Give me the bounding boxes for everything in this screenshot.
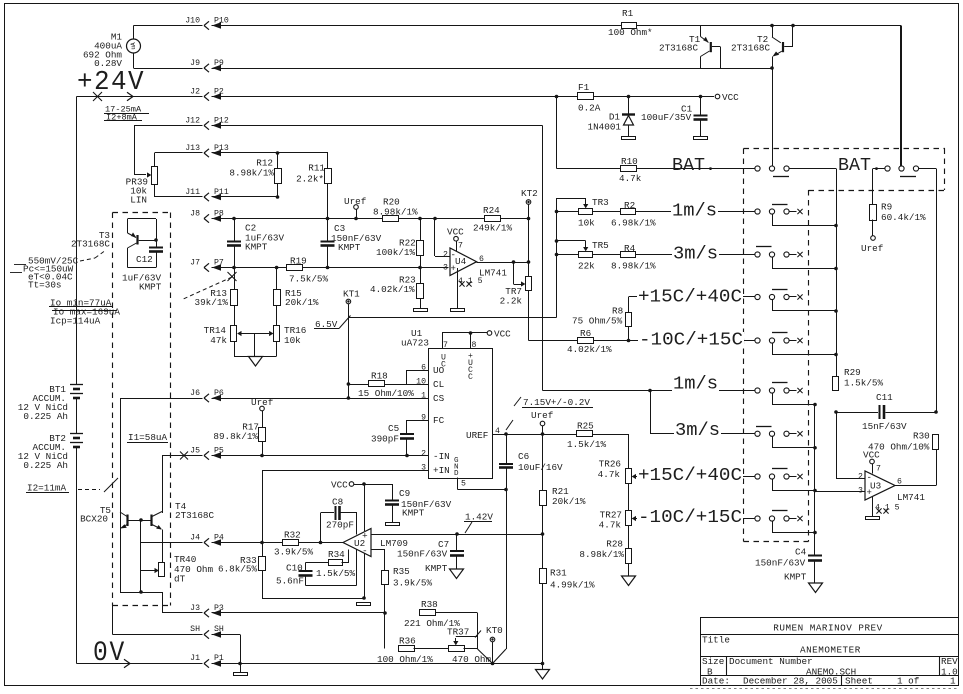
svg-text:J13: J13 (185, 144, 200, 153)
svg-text:UREF: UREF (466, 430, 488, 441)
svg-text:60.4k/1%: 60.4k/1% (881, 212, 926, 223)
svg-text:uA: uA (130, 42, 137, 50)
svg-text:J8: J8 (190, 209, 200, 218)
svg-text:P10: P10 (214, 16, 229, 25)
svg-text:75 Ohm/5%: 75 Ohm/5% (572, 316, 623, 327)
svg-text:89.8k/1%: 89.8k/1% (213, 431, 258, 442)
svg-text:270pF: 270pF (326, 520, 354, 531)
svg-text:-IN: -IN (433, 451, 450, 462)
svg-text:1m/s: 1m/s (673, 374, 718, 395)
svg-text:20k/1%: 20k/1% (285, 297, 319, 308)
svg-text:8.98k/1%: 8.98k/1% (579, 549, 624, 560)
svg-text:1: 1 (950, 676, 956, 687)
svg-text:December 28, 2005: December 28, 2005 (743, 676, 838, 687)
svg-text:CL: CL (433, 379, 444, 390)
svg-text:LM709: LM709 (380, 538, 408, 549)
svg-text:R30: R30 (913, 431, 930, 442)
svg-text:P13: P13 (214, 144, 229, 153)
svg-text:470 Ohm: 470 Ohm (452, 654, 491, 665)
svg-text:7.15V+/-0.2V: 7.15V+/-0.2V (523, 397, 590, 408)
svg-text:2T3168C: 2T3168C (71, 239, 110, 250)
svg-text:Title: Title (702, 635, 730, 646)
svg-text:J4: J4 (190, 533, 200, 542)
svg-text:3.9k/5%: 3.9k/5% (393, 578, 432, 589)
svg-text:KT1: KT1 (343, 289, 360, 300)
svg-text:3.9k/5%: 3.9k/5% (274, 547, 313, 558)
svg-text:Date:: Date: (702, 676, 730, 687)
svg-text:P11: P11 (214, 188, 229, 197)
svg-text:1.5k/5%: 1.5k/5% (316, 568, 355, 579)
svg-text:KMPT: KMPT (784, 572, 807, 583)
svg-text:D: D (454, 470, 459, 478)
svg-text:R34: R34 (328, 549, 345, 560)
svg-text:3: 3 (421, 464, 426, 473)
svg-text:U3: U3 (870, 481, 881, 492)
svg-text:100 Ohm*: 100 Ohm* (608, 27, 653, 38)
svg-text:C6: C6 (518, 451, 529, 462)
svg-text:0.2A: 0.2A (578, 103, 601, 114)
svg-text:TR3: TR3 (592, 197, 609, 208)
svg-text:4.02k/1%: 4.02k/1% (567, 344, 612, 355)
svg-text:22k: 22k (578, 261, 595, 272)
svg-text:R18: R18 (371, 371, 388, 382)
svg-text:CS: CS (433, 393, 445, 404)
svg-text:2.2k*: 2.2k* (296, 174, 324, 185)
svg-text:RUMEN MARINOV PREV: RUMEN MARINOV PREV (773, 623, 882, 634)
svg-text:-10C/+15C: -10C/+15C (639, 330, 743, 351)
svg-text:100 Ohm/1%: 100 Ohm/1% (377, 654, 433, 665)
svg-text:BAT.: BAT. (672, 155, 716, 176)
svg-text:1.5k/1%: 1.5k/1% (567, 439, 606, 450)
svg-text:Document Number: Document Number (729, 656, 813, 667)
svg-text:2T3168C: 2T3168C (659, 43, 698, 54)
svg-text:J2: J2 (190, 87, 200, 96)
svg-text:6: 6 (421, 364, 426, 373)
svg-text:KMPT: KMPT (425, 563, 448, 574)
svg-text:R35: R35 (393, 566, 410, 577)
svg-text:2: 2 (421, 450, 426, 459)
svg-text:+: + (362, 531, 368, 542)
svg-text:1: 1 (421, 392, 426, 401)
svg-text:2.2k: 2.2k (500, 296, 523, 307)
svg-text:R28: R28 (606, 539, 623, 550)
svg-text:VCC: VCC (331, 480, 348, 491)
svg-text:LM741: LM741 (479, 268, 507, 279)
svg-text:I2=11mA: I2=11mA (27, 483, 66, 494)
svg-text:15nF/63V: 15nF/63V (862, 421, 907, 432)
svg-text:R24: R24 (483, 205, 500, 216)
svg-text:Uref: Uref (861, 243, 883, 254)
svg-text:1.5k/5%: 1.5k/5% (844, 378, 883, 389)
svg-text:J11: J11 (185, 188, 200, 197)
svg-text:BCX20: BCX20 (80, 514, 108, 525)
svg-text:+24V: +24V (77, 68, 145, 98)
svg-text:10uF/16V: 10uF/16V (518, 462, 563, 473)
svg-text:C11: C11 (876, 392, 893, 403)
svg-text:VCC: VCC (494, 329, 511, 340)
svg-text:J10: J10 (185, 16, 200, 25)
svg-text:C5: C5 (388, 423, 399, 434)
svg-text:R1: R1 (622, 8, 634, 19)
svg-text:F1: F1 (578, 82, 590, 93)
svg-text:4.7k: 4.7k (598, 469, 621, 480)
svg-text:R6: R6 (580, 328, 591, 339)
svg-text:TR26: TR26 (599, 459, 621, 470)
svg-text:R36: R36 (399, 636, 416, 647)
svg-text:J1: J1 (190, 654, 200, 663)
svg-text:Sheet: Sheet (845, 676, 873, 687)
svg-text:6.8k/5%: 6.8k/5% (218, 564, 257, 575)
svg-text:J12: J12 (185, 116, 200, 125)
svg-text:J5: J5 (190, 446, 200, 455)
svg-text:C: C (468, 373, 473, 382)
svg-text:7: 7 (443, 341, 448, 350)
svg-text:Uref: Uref (531, 410, 553, 421)
svg-text:10k: 10k (284, 335, 301, 346)
svg-text:R10: R10 (621, 156, 638, 167)
svg-text:100uF/35V: 100uF/35V (641, 112, 692, 123)
svg-text:J9: J9 (190, 59, 200, 68)
svg-text:C10: C10 (286, 563, 303, 574)
svg-text:150nF/63V: 150nF/63V (755, 558, 806, 569)
svg-text:R11: R11 (308, 163, 325, 174)
svg-text:LM741: LM741 (897, 492, 925, 503)
svg-text:39k/1%: 39k/1% (195, 297, 229, 308)
svg-text:KT0: KT0 (486, 625, 503, 636)
svg-text:2T3168C: 2T3168C (731, 43, 770, 54)
svg-text:8.98k/1%: 8.98k/1% (611, 261, 656, 272)
svg-text:VCC: VCC (447, 227, 464, 238)
svg-text:C12: C12 (136, 254, 153, 265)
svg-text:150nF/63V: 150nF/63V (397, 549, 448, 560)
svg-text:P12: P12 (214, 116, 229, 125)
svg-text:8.98k/1%: 8.98k/1% (373, 207, 418, 218)
svg-text:15 Ohm/10%: 15 Ohm/10% (358, 388, 414, 399)
svg-text:FC: FC (433, 415, 445, 426)
svg-text:7: 7 (458, 242, 463, 251)
svg-text:R19: R19 (290, 256, 307, 267)
svg-text:3m/s: 3m/s (673, 244, 718, 265)
svg-text:KMPT: KMPT (139, 282, 162, 293)
svg-text:1 of: 1 of (897, 676, 919, 687)
svg-text:I2+8mA: I2+8mA (106, 113, 138, 123)
svg-text:R38: R38 (421, 599, 438, 610)
svg-text:47k: 47k (210, 335, 227, 346)
svg-text:2T3168C: 2T3168C (175, 510, 214, 521)
svg-text:R31: R31 (550, 568, 567, 579)
svg-text:10: 10 (416, 378, 426, 387)
svg-text:uA723: uA723 (401, 338, 429, 349)
svg-text:R4: R4 (624, 243, 636, 254)
svg-text:BAT.: BAT. (838, 155, 882, 176)
svg-text:4.02k/1%: 4.02k/1% (370, 284, 415, 295)
svg-text:Uref: Uref (344, 196, 366, 207)
svg-text:KMPT: KMPT (245, 242, 268, 253)
svg-text:I1=58uA: I1=58uA (128, 432, 167, 443)
svg-text:1.42V: 1.42V (465, 512, 493, 523)
svg-text:3: 3 (443, 264, 448, 273)
svg-text:+IN: +IN (433, 465, 450, 476)
svg-text:7: 7 (876, 465, 881, 474)
svg-text:LIN: LIN (130, 195, 147, 206)
svg-text:J3: J3 (190, 604, 200, 613)
svg-text:249k/1%: 249k/1% (473, 223, 512, 234)
svg-text:0.225 Ah: 0.225 Ah (23, 411, 68, 422)
svg-text:U4: U4 (455, 256, 467, 267)
svg-text:0V: 0V (93, 638, 126, 669)
svg-text:dT: dT (174, 574, 186, 585)
svg-text:5: 5 (461, 480, 466, 489)
svg-text:KT2: KT2 (521, 188, 538, 199)
svg-text:Size: Size (702, 656, 724, 667)
svg-text:4.7k: 4.7k (599, 520, 622, 531)
svg-text:1m/s: 1m/s (672, 201, 717, 222)
svg-text:UO: UO (433, 365, 445, 376)
svg-text:TR5: TR5 (592, 240, 609, 251)
svg-text:R2: R2 (624, 200, 635, 211)
svg-text:+15C/+40C: +15C/+40C (638, 465, 742, 486)
svg-text:C4: C4 (795, 547, 807, 558)
svg-text:J7: J7 (190, 258, 200, 267)
svg-text:KMPT: KMPT (338, 242, 361, 253)
svg-text:R29: R29 (844, 367, 861, 378)
svg-text:TR37: TR37 (447, 627, 469, 638)
svg-text:R25: R25 (577, 421, 594, 432)
svg-text:R32: R32 (284, 530, 301, 541)
svg-text:KMPT: KMPT (402, 508, 425, 519)
svg-text:4.7k: 4.7k (619, 173, 642, 184)
svg-text:1N4001: 1N4001 (588, 122, 622, 133)
svg-text:Tt=30s: Tt=30s (28, 280, 61, 291)
svg-text:Icp=114uA: Icp=114uA (50, 316, 101, 327)
svg-text:C8: C8 (332, 497, 343, 508)
svg-text:9: 9 (421, 414, 426, 423)
svg-text:-10C/+15C: -10C/+15C (638, 507, 742, 528)
svg-text:REV: REV (941, 656, 958, 667)
svg-text:7.5k/5%: 7.5k/5% (289, 274, 328, 285)
svg-text:C9: C9 (399, 488, 410, 499)
svg-text:2: 2 (858, 473, 863, 482)
svg-text:2: 2 (443, 251, 448, 260)
svg-text:SH: SH (190, 625, 200, 634)
svg-text:10k: 10k (578, 218, 595, 229)
svg-text:5.6nF: 5.6nF (276, 576, 304, 587)
svg-text:6.98k/1%: 6.98k/1% (611, 218, 656, 229)
svg-text:ANEMOMETER: ANEMOMETER (800, 645, 861, 656)
svg-text:390pF: 390pF (371, 434, 399, 445)
svg-text:3m/s: 3m/s (675, 420, 720, 441)
svg-text:8.98k/1%: 8.98k/1% (229, 168, 274, 179)
svg-text:100k/1%: 100k/1% (376, 247, 415, 258)
svg-text:8: 8 (472, 341, 477, 350)
svg-text:R9: R9 (881, 202, 892, 213)
svg-text:4.99k/1%: 4.99k/1% (550, 580, 595, 591)
svg-text:0.225 Ah: 0.225 Ah (23, 460, 68, 471)
svg-text:+15C/+40C: +15C/+40C (638, 287, 742, 308)
svg-text:VCC: VCC (722, 92, 739, 103)
svg-text:20k/1%: 20k/1% (552, 496, 586, 507)
svg-text:J6: J6 (190, 389, 200, 398)
svg-text:6: 6 (897, 478, 902, 487)
